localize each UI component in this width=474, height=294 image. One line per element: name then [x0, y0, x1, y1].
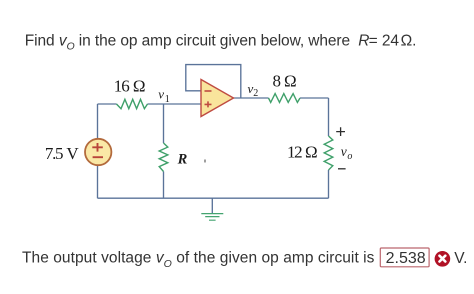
svg-text:Find vO in the op amp circuit: Find vO in the op amp circuit given belo… [25, 32, 417, 52]
svg-text:1: 1 [165, 94, 170, 105]
svg-text:o: o [347, 151, 352, 162]
svg-text:16 Ω: 16 Ω [114, 77, 145, 96]
svg-text:The output voltage vO of the g: The output voltage vO of the given op am… [22, 250, 375, 270]
svg-text:V.: V. [454, 250, 467, 267]
svg-text:12 Ω: 12 Ω [287, 143, 317, 162]
svg-text:v: v [158, 87, 164, 102]
svg-text:R: R [177, 152, 188, 168]
svg-text:2.538: 2.538 [386, 250, 426, 267]
svg-text:8 Ω: 8 Ω [273, 71, 297, 90]
svg-text:7.5 V: 7.5 V [45, 144, 79, 163]
svg-text:v: v [341, 144, 347, 159]
svg-text:2: 2 [253, 88, 258, 99]
